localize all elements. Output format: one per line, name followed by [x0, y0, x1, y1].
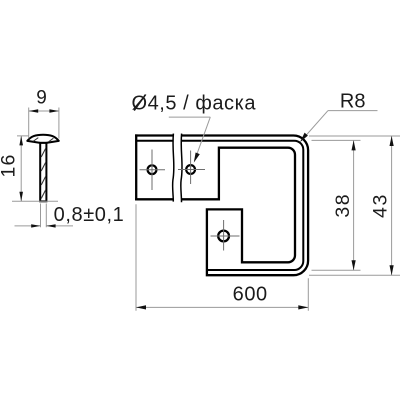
dim 38 extension lines [312, 140, 361, 270]
left segment: bottom edge [135, 198, 173, 200]
svg-text:38: 38 [332, 193, 354, 218]
dim 0,8 leader lines [15, 225, 74, 227]
dim 16 extension lines [12, 136, 58, 201]
hole 3 [218, 231, 229, 242]
R8 arrow [300, 133, 308, 143]
hole 2 center lines [178, 151, 205, 185]
R8 leader [301, 111, 328, 141]
stem hatch [41, 149, 45, 199]
break line right [181, 134, 182, 203]
dim 16 line [20, 136, 22, 201]
R8 leader shelf [328, 110, 378, 112]
hole label leader shelf [169, 116, 211, 118]
hole 3 center lines [211, 220, 240, 251]
dim 43 line [391, 136, 393, 275]
svg-text:16: 16 [0, 153, 20, 177]
hole 1 center lines [140, 150, 166, 191]
diameter slash accent [134, 95, 145, 111]
hole label leader [195, 117, 211, 160]
dim 600 arrows [136, 305, 146, 309]
break line left [173, 134, 174, 202]
svg-text:9: 9 [36, 87, 47, 108]
left segment: cap inner line [136, 140, 173, 142]
dim 600 line [136, 306, 308, 308]
dim 16 arrows [19, 136, 23, 146]
dim 9 extension lines [29, 108, 59, 139]
dim 600 extension lines [136, 204, 308, 310]
svg-text:600: 600 [233, 284, 268, 306]
svg-text:43: 43 [370, 193, 392, 218]
svg-text:R8: R8 [340, 90, 366, 112]
stem (section, hatched) [40, 143, 46, 201]
dim 43 arrows [390, 136, 394, 146]
cap inner line wrapping corner [182, 141, 304, 270]
dim 9 line [29, 110, 59, 112]
cap (mushroom head of T-profile) [27, 135, 59, 143]
left segment: top outer edge [135, 134, 173, 136]
dim 0,8 arrows [31, 224, 40, 227]
cap hatch [33, 138, 53, 142]
left segment: left edge [135, 134, 137, 200]
svg-text:0,8±0,1: 0,8±0,1 [54, 204, 125, 226]
svg-text:Ø4,5 / фаска: Ø4,5 / фаска [132, 93, 257, 115]
dim 38 line [353, 140, 355, 270]
dim 9 arrows [29, 109, 39, 113]
dim 38 arrows [352, 140, 356, 150]
dim 43 extension lines [309, 136, 400, 275]
hole 1 [148, 165, 157, 174]
hole label arrow [194, 153, 200, 163]
right segment outline (outer silhouette + steps) [182, 136, 309, 276]
hole 2 [186, 165, 195, 174]
dim 0,8 extension lines [41, 204, 47, 228]
